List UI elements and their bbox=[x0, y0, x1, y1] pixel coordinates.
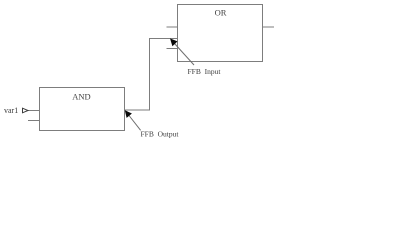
svg-text:var1: var1 bbox=[4, 106, 18, 115]
svg-text:OR: OR bbox=[215, 8, 227, 18]
svg-text:FFB Output: FFB Output bbox=[141, 130, 180, 139]
svg-text:AND: AND bbox=[72, 92, 90, 102]
svg-text:FFB Input: FFB Input bbox=[188, 67, 222, 76]
